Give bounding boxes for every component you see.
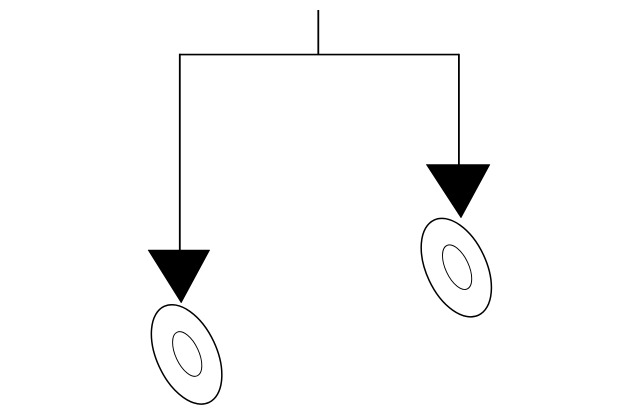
wire: left drop vertical	[179, 54, 181, 251]
node left: inner ellipse	[167, 327, 208, 380]
node right: inner ellipse	[436, 241, 477, 294]
node left: outer ellipse	[137, 294, 236, 414]
wire: right drop vertical	[458, 54, 460, 166]
wire: horizontal crossbar	[179, 54, 459, 56]
arrowhead left	[148, 250, 210, 303]
wire: root stem vertical	[317, 10, 319, 55]
node right: outer ellipse	[407, 207, 506, 328]
arrowhead right	[426, 165, 490, 219]
